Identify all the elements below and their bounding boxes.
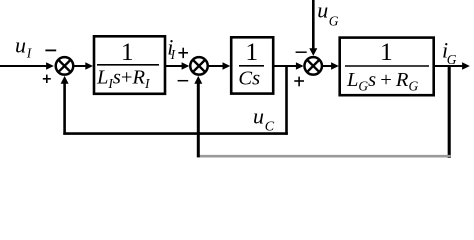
node u_G	[317, 0, 338, 29]
sign minus at S1	[45, 49, 56, 51]
wire: i_G feedback drop from output	[448, 66, 451, 158]
svg-text:1: 1	[121, 37, 134, 66]
wire: S3 to block G3	[323, 62, 339, 70]
svg-text:G: G	[447, 52, 457, 67]
summing junction S2	[190, 57, 208, 75]
summing junction S1	[56, 57, 74, 75]
sign minus at S3 (top input)	[296, 51, 307, 53]
svg-text:Cs: Cs	[238, 68, 260, 90]
svg-text:LGs + RG: LGs + RG	[346, 69, 418, 93]
svg-text:C: C	[265, 119, 275, 134]
svg-text:1: 1	[380, 37, 393, 66]
svg-text:G: G	[329, 14, 339, 29]
sign plus at S3 (left input)	[294, 77, 304, 87]
node i_I	[167, 35, 176, 62]
svg-text:u: u	[15, 32, 26, 57]
svg-text:LIs+RI: LIs+RI	[96, 67, 151, 91]
wire: i_G feedback riser into S2 (arrow up)	[194, 76, 202, 157]
node i_G	[442, 38, 457, 68]
node u_I	[15, 32, 33, 60]
node u_C label	[253, 104, 275, 135]
wire: i_G feedback horizontal run (gray)	[197, 155, 451, 158]
svg-text:u: u	[253, 104, 264, 129]
wire: u_C feedback riser into S1 (arrow up)	[61, 76, 69, 135]
wire: u_C feedback horizontal run	[63, 132, 287, 135]
wire: S1 to block G1	[74, 62, 93, 70]
svg-text:1: 1	[245, 37, 258, 66]
node u_C tap (junction on wire G2-S3)	[285, 66, 288, 135]
wire: u_I input into summing junction S1	[0, 62, 54, 70]
wire: block G1 to summing junction S2	[166, 62, 190, 70]
wire: block G2 to summing junction S3	[273, 62, 303, 70]
block G2: 1/(Cs)	[231, 37, 273, 93]
summing junction S3	[304, 57, 322, 75]
block G3: 1/(L_G s + R_G)	[340, 37, 434, 95]
block G1: 1/(L_I s+R_I)	[94, 36, 165, 94]
sign plus at S2 (left input)	[178, 48, 188, 58]
wire: block G3 output i_G	[434, 62, 470, 70]
wire: S2 to block G2	[209, 62, 231, 70]
sign minus at S2 (bottom input)	[178, 80, 189, 82]
wire: u_G disturbance input into S3 (from top)	[309, 0, 317, 56]
svg-text:u: u	[317, 0, 328, 22]
sign plus at S1	[43, 75, 51, 83]
